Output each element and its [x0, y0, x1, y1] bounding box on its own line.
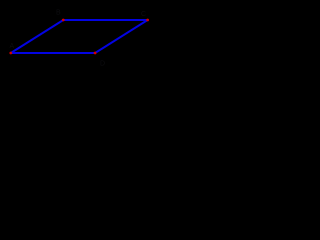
edge AB (left side of parallelogram) — [11, 20, 64, 53]
background — [0, 0, 156, 73]
edge AD (bottom side) — [11, 52, 95, 54]
point C (top-right vertex) — [146, 19, 149, 22]
point B (top-left vertex) — [62, 19, 65, 22]
point A (bottom-left vertex) — [9, 52, 12, 55]
svg-text:D: D — [100, 61, 105, 68]
svg-text:A: A — [10, 43, 15, 50]
svg-text:B: B — [56, 10, 61, 17]
edge DC (right side) — [95, 20, 148, 53]
svg-text:C: C — [141, 11, 146, 18]
point D (bottom-right vertex) — [94, 52, 97, 55]
edge BC (top side) — [63, 19, 147, 21]
